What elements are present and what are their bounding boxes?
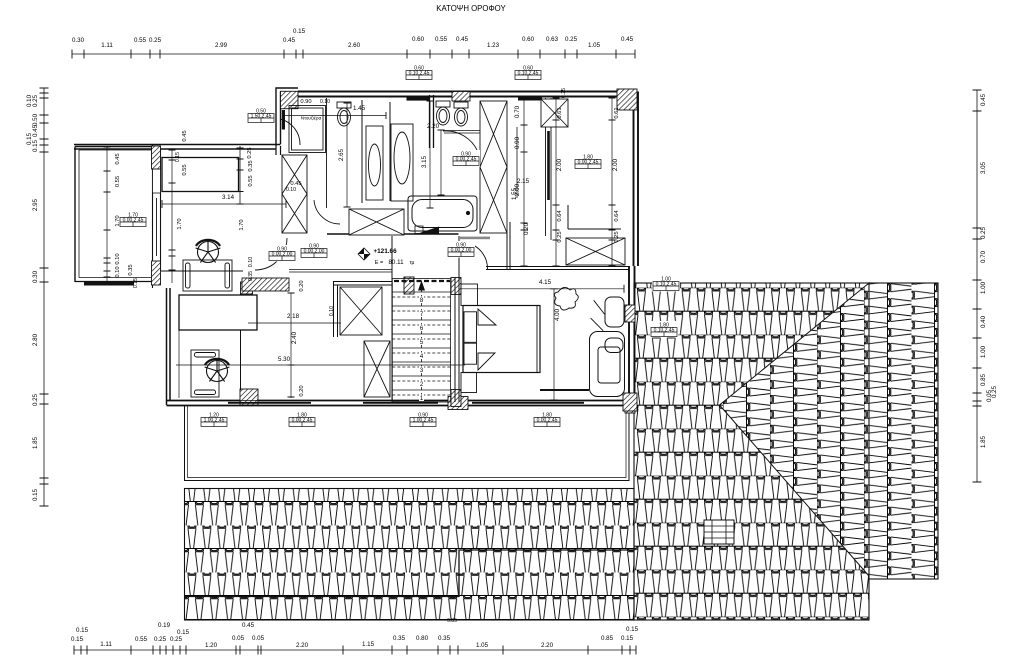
svg-text:E =: E = [375,260,384,266]
svg-text:0.85: 0.85 [980,373,987,386]
svg-text:0.00,2.00: 0.00,2.00 [272,252,293,258]
svg-text:0.90: 0.90 [514,136,521,149]
wardrobe open doors [591,300,606,330]
svg-text:0.15: 0.15 [32,139,39,152]
svg-text:0.15: 0.15 [32,488,39,501]
svg-text:0.25: 0.25 [561,88,567,98]
svg-text:0.55: 0.55 [134,37,147,44]
svg-text:2.95: 2.95 [32,198,39,211]
desk 2 [191,350,219,397]
svg-text:0.30: 0.30 [72,37,85,44]
svg-text:1.15: 1.15 [362,641,375,648]
svg-text:0.61: 0.61 [557,107,563,118]
svg-text:1.00,2.45: 1.00,2.45 [204,418,225,424]
svg-text:1.00,2.45: 1.00,2.45 [413,418,434,424]
svg-text:0.45: 0.45 [621,36,634,43]
svg-text:0.25: 0.25 [980,226,987,239]
svg-text:0.15: 0.15 [175,152,181,162]
svg-text:0.20: 0.20 [299,280,305,291]
svg-text:0.25: 0.25 [32,94,39,107]
svg-text:0.15: 0.15 [621,635,634,642]
svg-text:5.30: 5.30 [278,356,291,363]
svg-text:0.50: 0.50 [32,113,39,126]
svg-text:0.10,2.45: 0.10,2.45 [654,328,675,334]
chair 1 [196,239,221,263]
svg-text:1.11: 1.11 [101,42,113,49]
dim boxes [405,64,433,81]
svg-text:2.18: 2.18 [287,313,300,320]
svg-text:0.64: 0.64 [557,210,563,222]
stairs [392,279,450,403]
svg-text:0.10: 0.10 [115,253,121,264]
toilet 1 [337,102,351,126]
svg-text:0.55: 0.55 [435,36,448,43]
svg-text:1.23: 1.23 [487,42,500,49]
shaft A [282,155,307,233]
roof R3 tiles [869,283,938,579]
balcony [75,147,153,286]
svg-text:0.00,2.00: 0.00,2.00 [304,249,325,255]
svg-text:0.10: 0.10 [329,306,335,316]
svg-text:0.25: 0.25 [247,147,253,158]
wall w/ window balcony [153,144,161,288]
svg-text:0.19: 0.19 [158,622,171,629]
svg-text:0.35: 0.35 [248,160,254,171]
xbox left of stairs 1 [340,287,382,335]
xbox right room bottom [566,238,625,265]
chimney [704,520,734,544]
roof R1 tiles [185,489,635,621]
top dim chain [72,53,635,55]
svg-text:2.00: 2.00 [612,158,619,171]
svg-text:0.15: 0.15 [71,636,84,643]
svg-text:0.35: 0.35 [128,264,134,275]
svg-text:0.45: 0.45 [182,130,188,141]
svg-text:0.45: 0.45 [290,181,301,187]
windows bottom wall [214,401,321,406]
svg-text:1.55: 1.55 [511,187,518,200]
svg-text:0.05: 0.05 [252,635,265,642]
svg-text:1.85: 1.85 [980,435,987,448]
svg-text:0.00,2.45: 0.00,2.45 [456,157,477,163]
svg-text:1.70: 1.70 [239,219,245,230]
svg-text:0.55: 0.55 [115,176,121,187]
svg-text:0.00,2.00: 0.00,2.00 [451,248,472,254]
svg-text:0.85: 0.85 [601,635,614,642]
bed [461,284,540,393]
building outer walls [74,88,638,414]
xbox left of stairs 2 [364,341,390,397]
svg-text:0.60: 0.60 [412,36,425,43]
svg-text:0.45: 0.45 [32,124,39,137]
right dim chain [976,90,978,482]
roof hip triangle [720,283,870,576]
shaft B [480,101,507,233]
column top right room [541,99,568,127]
svg-text:0.05: 0.05 [232,635,245,642]
svg-text:4.00: 4.00 [554,308,561,321]
roof R2 tiles [634,283,869,620]
svg-text:0.64: 0.64 [614,210,620,222]
closet upper-left room [162,158,239,192]
svg-text:0.15: 0.15 [133,278,139,288]
door arcs [255,119,488,270]
svg-text:0.30: 0.30 [32,270,39,283]
svg-text:0.45: 0.45 [283,37,296,44]
plant blob [554,287,578,310]
svg-text:1.05: 1.05 [476,642,489,649]
terrace outline [185,406,630,481]
svg-text:0.40: 0.40 [980,315,987,328]
svg-text:0.00,2.45: 0.00,2.45 [123,218,144,224]
svg-text:1.85: 1.85 [32,436,39,449]
svg-text:2.20: 2.20 [541,642,554,649]
svg-text:0.45: 0.45 [242,622,255,629]
interior walls [179,95,629,402]
shower [289,106,326,153]
svg-text:τμ: τμ [410,260,415,266]
svg-text:2.15: 2.15 [517,178,530,185]
svg-text:0.00,2.45: 0.00,2.45 [578,160,599,166]
svg-text:0.60: 0.60 [522,36,535,43]
svg-text:0.10,2.45: 0.10,2.45 [409,71,430,77]
vanity 2 [391,124,413,201]
door jamb black [282,110,285,130]
svg-text:1.00: 1.00 [980,281,987,294]
svg-text:4.15: 4.15 [539,279,552,286]
svg-text:2.80: 2.80 [32,333,39,346]
svg-text:0.25: 0.25 [154,636,167,643]
svg-text:0.25: 0.25 [32,393,39,406]
svg-text:0.15: 0.15 [76,627,89,634]
vanity 1 [366,126,383,200]
desk 1 [183,260,232,291]
svg-text:0.35: 0.35 [438,635,451,642]
level marker [358,248,370,260]
svg-text:0.00,2.45: 0.00,2.45 [292,418,313,424]
svg-text:0.55: 0.55 [135,636,148,643]
svg-text:3.15: 3.15 [421,155,428,168]
svg-text:2.65: 2.65 [338,148,345,161]
svg-text:0.70: 0.70 [514,105,521,118]
hatched wall blocks [452,92,470,102]
svg-text:1.50,2.45: 1.50,2.45 [251,114,272,120]
svg-text:0.45: 0.45 [115,153,121,164]
svg-text:0.80: 0.80 [416,635,429,642]
svg-text:0.90: 0.90 [300,99,311,105]
xbox bathroom floor [349,209,404,235]
svg-text:1.20: 1.20 [205,642,218,649]
svg-text:0.55: 0.55 [182,164,188,175]
svg-text:0.55: 0.55 [248,175,254,186]
svg-text:0.20: 0.20 [299,385,305,396]
svg-text:0.15: 0.15 [626,626,639,633]
svg-text:3.05: 3.05 [980,161,987,174]
svg-text:0.15: 0.15 [177,629,190,636]
svg-text:2.20: 2.20 [427,123,440,130]
svg-text:0.35: 0.35 [393,635,406,642]
svg-text:0.10,2.45: 0.10,2.45 [518,71,539,77]
bidet [454,102,468,126]
svg-text:0.25: 0.25 [170,636,183,643]
svg-text:1.11: 1.11 [100,641,112,648]
svg-text:2.99: 2.99 [215,42,228,49]
svg-text:0.63: 0.63 [546,36,559,43]
svg-text:0.10,2.45: 0.10,2.45 [656,282,677,288]
svg-text:1.70: 1.70 [177,218,183,229]
svg-text:ΚΑΤΟΨΗ ΟΡΟΦΟΥ: ΚΑΤΟΨΗ ΟΡΟΦΟΥ [436,4,506,13]
chair 2 [205,358,230,382]
svg-text:0.35: 0.35 [248,271,254,281]
svg-text:0.25: 0.25 [614,231,620,242]
svg-text:0.20: 0.20 [523,222,530,235]
toilet 2 [436,101,450,125]
svg-text:0.10: 0.10 [115,266,121,277]
svg-text:0.25: 0.25 [991,385,998,398]
svg-text:0.10: 0.10 [286,187,296,193]
svg-text:0.25: 0.25 [557,231,563,242]
lintels [407,97,430,101]
svg-text:+121.66: +121.66 [373,248,397,255]
svg-text:2.00: 2.00 [556,158,563,171]
table lower-left room [179,295,257,330]
svg-text:0.25: 0.25 [565,36,578,43]
svg-text:0.70: 0.70 [980,250,987,263]
svg-text:1.05: 1.05 [588,42,601,49]
eave line over R1 [185,550,635,597]
svg-text:1.70: 1.70 [115,215,121,226]
svg-text:0.45: 0.45 [980,93,987,106]
svg-text:0.61: 0.61 [614,107,620,118]
svg-text:2.40: 2.40 [291,331,298,344]
svg-text:0.45: 0.45 [456,36,469,43]
svg-text:80.11: 80.11 [388,259,404,266]
svg-text:1.00: 1.00 [980,345,987,358]
svg-text:2.20: 2.20 [296,642,309,649]
pouf [605,297,624,327]
svg-text:0.10: 0.10 [26,94,33,107]
svg-text:0.15: 0.15 [293,28,306,35]
svg-text:0.00,2.45: 0.00,2.45 [537,418,558,424]
svg-text:1.45: 1.45 [353,105,366,112]
svg-text:0.25: 0.25 [149,37,162,44]
svg-text:0.10: 0.10 [248,257,254,268]
left dim chain [43,88,45,506]
svg-text:0.10: 0.10 [320,99,330,105]
armchair [590,332,625,397]
interior dim lines [162,203,286,205]
svg-text:3.14: 3.14 [222,194,235,201]
svg-text:0.85: 0.85 [447,618,457,624]
bathtub [408,196,477,231]
svg-text:2.60: 2.60 [348,42,361,49]
bottom dim chain [74,649,636,651]
